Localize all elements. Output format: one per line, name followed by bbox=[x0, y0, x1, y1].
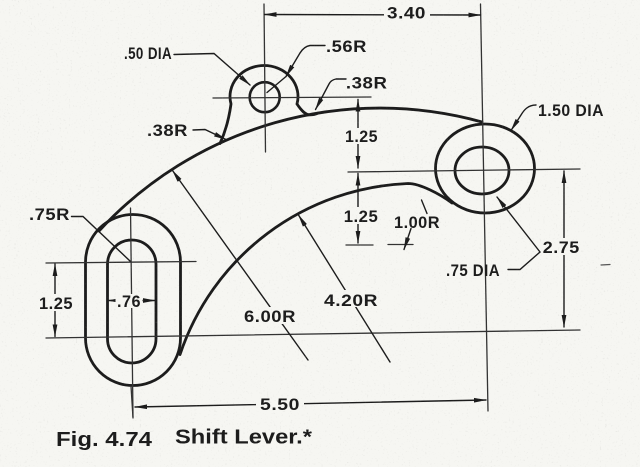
centerline slot vertical bbox=[131, 208, 134, 417]
stray mark right of 2.75 bbox=[601, 264, 610, 267]
dimension .76 bbox=[108, 300, 155, 302]
text backgrounds bbox=[384, 6, 430, 25]
top outline 6.00R arc bbox=[99, 108, 482, 231]
leader .75 DIA bbox=[497, 197, 540, 270]
dimension 1.25 left bbox=[54, 264, 56, 337]
leader .56R tail into hole bbox=[267, 77, 286, 93]
dimension 3.40 bbox=[265, 14, 481, 17]
leader 1.00R down arrow bbox=[404, 229, 411, 250]
dimension 2.75 bbox=[563, 171, 565, 327]
leader .56R bbox=[286, 46, 325, 77]
extension line segment below 1.00R bbox=[388, 244, 413, 246]
leader 4.20R bbox=[299, 215, 391, 362]
right boss outer circle 1.50 DIA bbox=[436, 124, 535, 213]
centerline right boss vertical bbox=[481, 4, 489, 411]
leader .38R left bbox=[193, 130, 226, 140]
centerline small boss horizontal bbox=[213, 97, 371, 98]
dimension 1.25 lower stack bbox=[357, 174, 359, 244]
dimension 1.25 upper stack bbox=[357, 100, 359, 169]
dimension 5.50 bbox=[135, 400, 486, 407]
right boss hole .75 DIA bbox=[455, 147, 509, 194]
extension line below lower 1.25 bbox=[346, 244, 373, 246]
leader .38R right bbox=[316, 79, 347, 110]
slot boss outer obround bbox=[86, 215, 181, 386]
centerline slot top arc bbox=[46, 262, 196, 264]
small boss with .38R fillets bbox=[220, 66, 318, 144]
centerline right boss horizontal bbox=[348, 169, 580, 172]
centerline slot bottom arc / extension line bbox=[46, 330, 580, 338]
slot inner obround bbox=[108, 240, 157, 363]
hole .50 DIA bbox=[250, 82, 280, 112]
centerline small boss vertical bbox=[264, 4, 266, 152]
leader 1.00R up to fillet bbox=[422, 200, 428, 214]
leader 6.00R bbox=[173, 171, 309, 361]
leader .50 DIA bbox=[174, 54, 250, 86]
extension line 5.50 left bbox=[131, 386, 133, 418]
leader 1.50 DIA bbox=[511, 105, 536, 131]
leader .75R bbox=[72, 217, 131, 262]
bottom outline 4.20R arc with 1.00R fillet bbox=[180, 184, 452, 355]
